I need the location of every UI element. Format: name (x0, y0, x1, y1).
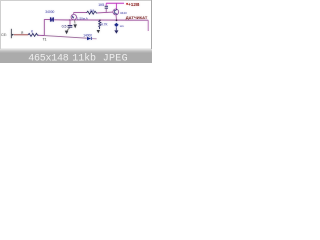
node dot +12B (126, 3, 128, 5)
ground arrow under C1 (65, 31, 69, 35)
ground arrow under R3 (97, 30, 100, 33)
junction dot emitter (116, 19, 118, 21)
wire after diode VD2 (92, 38, 97, 40)
lamp L1 inner mark (72, 16, 74, 19)
svg-text:11kb: 11kb (72, 52, 96, 63)
resistor R3 vertical zigzag (99, 20, 101, 29)
svg-text:зсх: зсх (120, 24, 125, 28)
svg-text:0,5: 0,5 (62, 25, 67, 29)
ground arrow under LED (114, 30, 118, 33)
capacitor C1 lead (69, 20, 71, 25)
wire mid rail (74, 11, 87, 13)
emitter lead down (115, 15, 118, 20)
junction dot resistor R3 (99, 19, 101, 21)
lamp bottom lead (74, 20, 76, 24)
connector pin arrow (12, 34, 14, 36)
wire to lamp (70, 19, 72, 21)
wire M to cap junction (54, 19, 70, 21)
wire collector riser (115, 3, 117, 9)
svg-text:JPEG: JPEG (103, 53, 128, 63)
frame border (0, 0, 152, 2)
svg-text:СЕ:: СЕ: (1, 33, 7, 37)
wire long output rail (71, 19, 149, 21)
wire lamp top riser (73, 12, 75, 14)
resistor R1 zigzag (28, 33, 39, 36)
LED lead down (115, 27, 117, 30)
capacitor C1 bottom lead (67, 28, 70, 31)
capacitor C2 plates (105, 7, 108, 10)
wire right edge drop (147, 20, 149, 31)
caption text (28, 52, 127, 64)
wire vertical riser (43, 19, 45, 35)
diode VD2 (87, 37, 91, 40)
wire connector to fuse/resistor (14, 34, 28, 36)
junction dot (69, 19, 71, 21)
lamp L1 circle (71, 14, 76, 19)
wire top rail left segment (44, 18, 50, 20)
wire R2 to transistor (97, 11, 113, 14)
svg-text:+12В: +12В (128, 2, 140, 7)
caption bar (0, 49, 152, 63)
transistor Q1 inner symbol (115, 9, 118, 14)
wire +12 top rail (106, 2, 124, 4)
svg-text:465x148: 465x148 (28, 53, 69, 63)
svg-text:М: М (50, 18, 54, 24)
white image background (0, 0, 152, 63)
svg-text:1К5: 1К5 (98, 3, 104, 7)
ground arrow under lamp (73, 24, 77, 28)
svg-text:ДАТЧИКАТ: ДАТЧИКАТ (126, 15, 148, 20)
wire bottom rail (slanted) (44, 36, 87, 39)
svg-text:34000: 34000 (45, 10, 54, 14)
capacitor C2 lead top (105, 3, 107, 5)
resistor R2 zigzag (87, 11, 98, 14)
capacitor C2 lead bottom (105, 9, 107, 13)
transistor Q1 circle (113, 9, 119, 15)
svg-text:4.7К: 4.7К (101, 22, 108, 26)
capacitor C1 plates (68, 24, 73, 27)
LED VD3 diamond (114, 23, 118, 27)
connector X1 body bar (10, 29, 13, 38)
wire R1 to junction (39, 34, 45, 36)
svg-text:Т1: Т1 (43, 37, 47, 41)
